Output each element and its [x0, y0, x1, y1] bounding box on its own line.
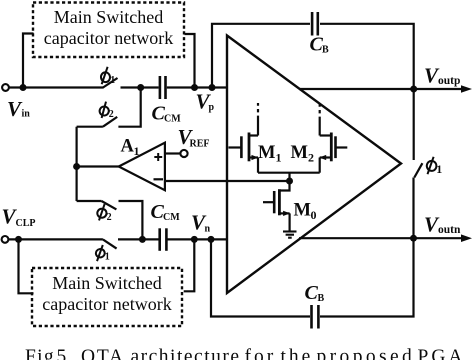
wire V_n down to SC box right stub (bottom): [184, 239, 195, 291]
label M2: [291, 143, 315, 165]
label Main Switched capacitor network (top): [44, 7, 173, 48]
label V_CLP: [2, 205, 36, 230]
svg-text:M: M: [294, 201, 311, 221]
svg-text:CM: CM: [163, 212, 180, 223]
wire phi2 branch from top node: [118, 88, 140, 127]
node junction at V_CLP branch: [15, 236, 22, 243]
svg-text:Fig.5.OTAarchitectureforthepro: Fig.5.OTAarchitecturefortheproposedPGA.: [25, 347, 473, 360]
label V_outp: [424, 64, 460, 88]
label M1: [258, 143, 282, 165]
minus input marker A1: [154, 178, 164, 180]
node junction at V_in branch: [20, 84, 27, 91]
wire phi2 branch from bottom node: [119, 201, 143, 239]
wire phi2 (bottom) to A1 branch: [77, 200, 102, 202]
node V_p: [191, 84, 198, 91]
wire C_B top branch left: [212, 24, 310, 88]
switch phi2 (bottom) blade: [102, 201, 117, 209]
node tail: [286, 178, 293, 185]
label C_B (bottom): [305, 282, 325, 304]
transistor M1: [229, 103, 259, 173]
wire C_B bottom branch right: [320, 178, 414, 317]
wire A1 plus input to V_REF: [165, 152, 180, 154]
capacitor C_B (bottom): [312, 305, 319, 329]
svg-text:M: M: [291, 143, 308, 163]
wire branch up to SC network box (top): [23, 34, 34, 88]
wire C_CM to OTA left edge (V_n line): [167, 238, 228, 240]
svg-text:2: 2: [109, 109, 114, 120]
svg-text:1: 1: [436, 162, 442, 176]
label V_p: [196, 90, 215, 114]
node C_B branch (top): [209, 84, 216, 91]
label Main Switched capacitor network (bottom): [42, 273, 171, 314]
node C_B branch (bottom): [208, 236, 215, 243]
terminal V_REF: [180, 150, 187, 157]
SC network box (bottom): [32, 268, 182, 326]
switch phi1 (top) blade: [103, 78, 118, 88]
wire C_CM to OTA left edge (V_p line): [167, 86, 227, 88]
wire switch phi1 to C_CM (bottom): [118, 238, 159, 240]
wire V_outn: [299, 237, 463, 239]
svg-text:n: n: [205, 224, 211, 235]
label phi2 (bottom): [97, 204, 112, 223]
op-amp A1: [119, 143, 165, 191]
label phi1 (bottom): [95, 245, 110, 262]
switch phi2 (top) blade: [103, 117, 117, 127]
transistor M2: [319, 104, 347, 173]
label V_in: [7, 97, 30, 121]
wire V_p up to SC box right stub (top): [185, 34, 195, 88]
svg-text:CLP: CLP: [16, 218, 36, 229]
wire V_CLP to switch phi1 (bottom): [8, 238, 103, 240]
wire switch phi1 to C_CM (top): [121, 86, 159, 88]
wire C_B bottom branch left: [211, 239, 310, 316]
terminal V_CLP: [2, 236, 9, 243]
label phi2 (top): [99, 102, 114, 120]
svg-text:p: p: [209, 102, 215, 113]
wire V_outp: [299, 88, 463, 90]
wire phi2 (top) to A1 branch: [77, 126, 103, 128]
svg-text:2: 2: [308, 151, 314, 165]
label C_CM (top): [152, 103, 182, 125]
ground: [283, 232, 297, 238]
svg-text:C: C: [305, 282, 319, 304]
capacitor C_CM (bottom): [160, 228, 167, 251]
svg-text:0: 0: [311, 208, 317, 222]
svg-text:M: M: [258, 143, 275, 163]
capacitor C_CM (top): [160, 76, 166, 99]
svg-text:outn: outn: [438, 224, 461, 236]
svg-text:CM: CM: [164, 114, 181, 125]
node junction phi2 branch (top): [137, 84, 144, 91]
svg-text:B: B: [318, 293, 325, 304]
SC network box (top): [33, 3, 184, 58]
label C_B (top): [310, 34, 330, 56]
svg-text:capacitor network: capacitor network: [42, 294, 171, 314]
svg-text:1: 1: [110, 75, 115, 86]
svg-text:in: in: [22, 109, 31, 120]
label V_REF: [178, 125, 210, 150]
wire A1 minus input to tail node: [165, 180, 290, 182]
terminal V_in: [2, 84, 9, 91]
node junction phi2 branch (bottom): [139, 236, 146, 243]
svg-text:Main Switched: Main Switched: [54, 7, 164, 27]
svg-text:1: 1: [105, 251, 110, 262]
label V_outn: [424, 213, 461, 237]
switch phi1 (output) blade: [414, 163, 422, 177]
svg-text:Main Switched: Main Switched: [52, 273, 162, 293]
node V_n: [191, 236, 198, 243]
plus input marker A1: [154, 153, 162, 161]
svg-text:2: 2: [107, 212, 112, 223]
label M0: [294, 201, 317, 223]
svg-text:outp: outp: [438, 75, 460, 87]
wire C_B top branch right: [320, 24, 414, 160]
switch phi1 (bottom) blade: [103, 239, 117, 248]
OTA triangle: [227, 36, 401, 294]
svg-text:REF: REF: [190, 139, 210, 150]
node A1 output: [73, 163, 80, 170]
node V_outp: [410, 86, 417, 93]
label C_CM (bottom): [151, 201, 181, 223]
wire M1 M2 common source bar: [258, 172, 320, 174]
label phi1 (top): [100, 67, 115, 86]
transistor M0: [263, 181, 290, 232]
svg-text:capacitor network: capacitor network: [44, 28, 173, 48]
label phi1 (output): [426, 157, 442, 176]
wire branch down to SC network box (bottom): [19, 239, 34, 293]
svg-text:1: 1: [134, 144, 140, 158]
svg-text:1: 1: [276, 151, 282, 165]
arrowhead V_outp: [461, 85, 472, 93]
wire vertical A1 output bus: [75, 127, 77, 201]
capacitor C_B (top): [312, 12, 318, 36]
wire V_in to switch phi1: [9, 86, 104, 88]
wire A1 output: [77, 165, 119, 167]
wire tail tap: [288, 173, 290, 181]
arrowhead V_outn: [461, 234, 472, 242]
svg-text:A: A: [121, 137, 135, 157]
svg-text:B: B: [322, 45, 329, 56]
caption Fig. 5: [25, 347, 473, 360]
node V_outn: [410, 235, 417, 242]
label V_n: [191, 211, 211, 235]
label A1: [121, 137, 140, 159]
